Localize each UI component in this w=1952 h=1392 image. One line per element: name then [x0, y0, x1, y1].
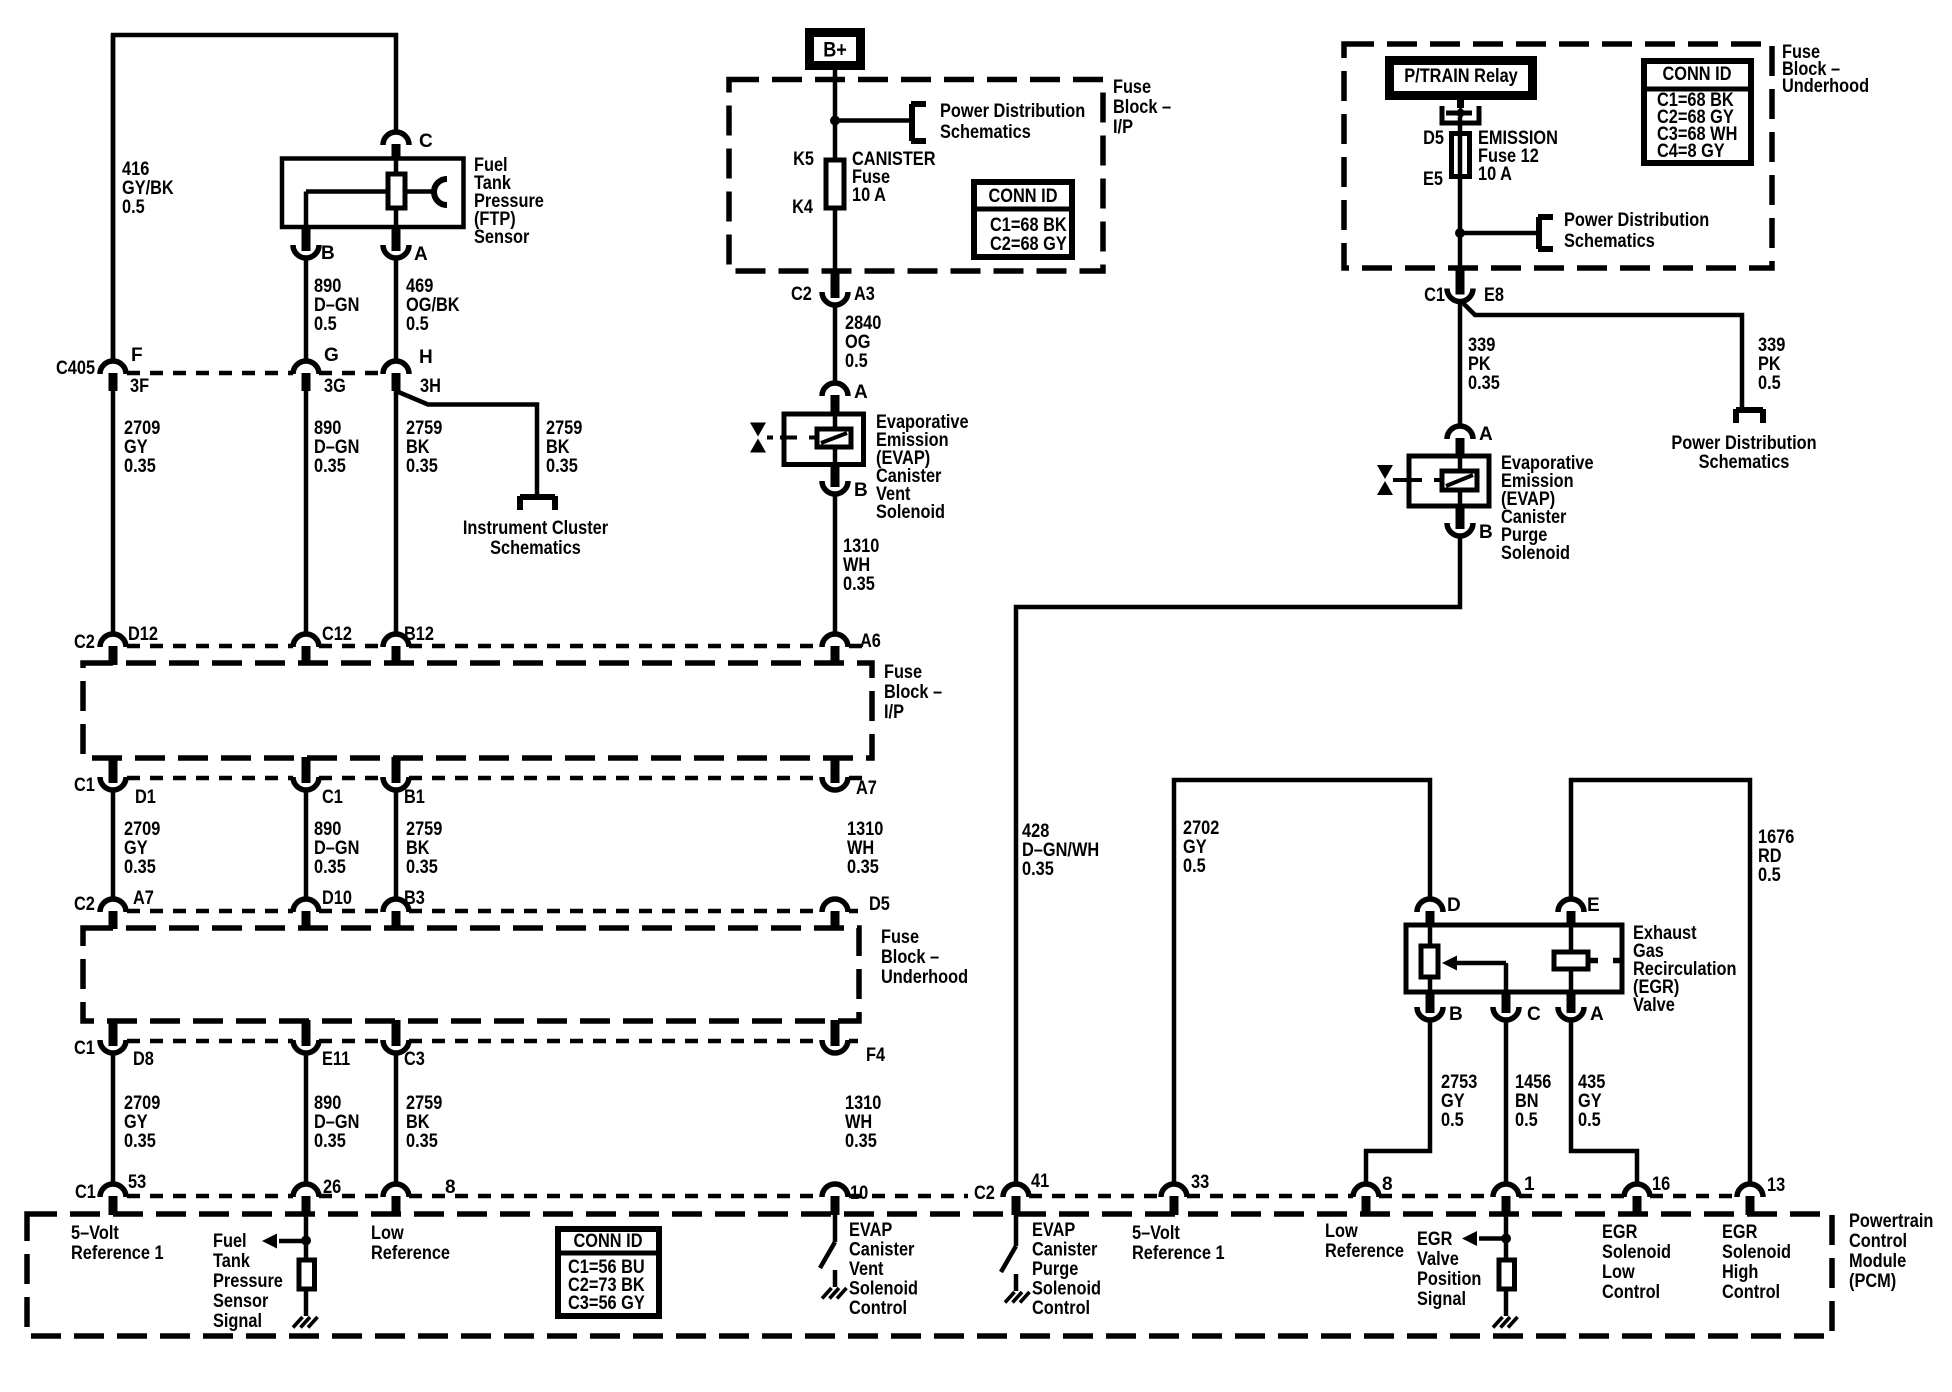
svg-text:A6: A6 — [860, 631, 881, 652]
svg-text:D–GN: D–GN — [314, 295, 359, 316]
svg-text:CONN ID: CONN ID — [574, 1231, 643, 1252]
svg-text:B1: B1 — [404, 787, 425, 808]
svg-text:E5: E5 — [1423, 169, 1443, 190]
svg-text:0.35: 0.35 — [546, 456, 578, 477]
svg-text:2709: 2709 — [124, 1093, 160, 1114]
svg-text:C1: C1 — [1424, 285, 1445, 306]
svg-text:0.35: 0.35 — [1022, 859, 1054, 880]
svg-text:B12: B12 — [404, 624, 434, 645]
svg-text:B: B — [321, 243, 335, 264]
svg-text:C3: C3 — [404, 1049, 425, 1070]
svg-text:10 A: 10 A — [1478, 164, 1512, 185]
svg-text:0.35: 0.35 — [406, 857, 438, 878]
svg-text:C2: C2 — [74, 632, 95, 653]
svg-text:EVAP: EVAP — [849, 1220, 893, 1241]
svg-text:Control: Control — [1849, 1231, 1907, 1252]
svg-text:890: 890 — [314, 819, 341, 840]
svg-text:Tank: Tank — [213, 1251, 250, 1272]
svg-text:3G: 3G — [324, 376, 346, 397]
svg-text:33: 33 — [1191, 1172, 1209, 1193]
svg-text:0.5: 0.5 — [122, 197, 145, 218]
svg-text:0.5: 0.5 — [1758, 373, 1781, 394]
svg-text:Schematics: Schematics — [1699, 452, 1790, 473]
svg-text:Schematics: Schematics — [1564, 231, 1655, 252]
svg-text:C1=68 BK: C1=68 BK — [990, 215, 1067, 236]
svg-text:Low: Low — [371, 1223, 404, 1244]
svg-text:3F: 3F — [130, 376, 149, 397]
svg-text:K5: K5 — [793, 149, 814, 170]
svg-text:2759: 2759 — [406, 1093, 442, 1114]
svg-text:WH: WH — [845, 1112, 872, 1133]
svg-text:H: H — [419, 347, 433, 368]
svg-text:Underhood: Underhood — [1782, 76, 1869, 97]
svg-text:Signal: Signal — [213, 1311, 262, 1332]
svg-text:Module: Module — [1849, 1251, 1906, 1272]
svg-text:8: 8 — [1382, 1174, 1393, 1195]
svg-text:Block –: Block – — [881, 947, 939, 968]
svg-text:16: 16 — [1652, 1174, 1670, 1195]
svg-text:K4: K4 — [792, 197, 813, 218]
svg-text:0.35: 0.35 — [847, 857, 879, 878]
svg-text:890: 890 — [314, 418, 341, 439]
svg-text:469: 469 — [406, 276, 433, 297]
svg-text:Signal: Signal — [1417, 1289, 1466, 1310]
svg-text:0.35: 0.35 — [314, 456, 346, 477]
svg-text:C12: C12 — [322, 624, 352, 645]
svg-text:0.5: 0.5 — [1578, 1110, 1601, 1131]
svg-text:Position: Position — [1417, 1269, 1481, 1290]
svg-text:26: 26 — [323, 1177, 341, 1198]
svg-text:D–GN: D–GN — [314, 1112, 359, 1133]
svg-text:BK: BK — [406, 1112, 430, 1133]
svg-text:C: C — [1527, 1004, 1541, 1025]
svg-text:2709: 2709 — [124, 418, 160, 439]
svg-text:D1: D1 — [135, 787, 156, 808]
svg-text:0.35: 0.35 — [314, 857, 346, 878]
svg-text:B: B — [854, 480, 868, 501]
svg-text:Solenoid: Solenoid — [876, 502, 945, 523]
svg-text:5–Volt: 5–Volt — [1132, 1223, 1180, 1244]
svg-text:Control: Control — [1602, 1282, 1660, 1303]
svg-text:1310: 1310 — [843, 536, 879, 557]
svg-text:C1: C1 — [75, 1182, 96, 1203]
svg-text:890: 890 — [314, 1093, 341, 1114]
svg-text:Block –: Block – — [1113, 97, 1171, 118]
svg-text:10 A: 10 A — [852, 185, 886, 206]
svg-text:1: 1 — [1524, 1174, 1535, 1195]
svg-text:High: High — [1722, 1262, 1758, 1283]
svg-text:Control: Control — [1722, 1282, 1780, 1303]
svg-text:Valve: Valve — [1417, 1249, 1459, 1270]
svg-text:D–GN: D–GN — [314, 437, 359, 458]
svg-text:C2: C2 — [974, 1183, 995, 1204]
svg-text:1310: 1310 — [845, 1093, 881, 1114]
svg-text:OG: OG — [845, 332, 870, 353]
svg-text:Underhood: Underhood — [881, 967, 968, 988]
svg-text:Low: Low — [1602, 1262, 1635, 1283]
svg-text:Powertrain: Powertrain — [1849, 1211, 1933, 1232]
svg-text:GY: GY — [1183, 837, 1207, 858]
svg-text:416: 416 — [122, 159, 149, 180]
svg-text:WH: WH — [843, 555, 870, 576]
svg-text:339: 339 — [1468, 335, 1495, 356]
svg-text:0.5: 0.5 — [406, 314, 429, 335]
svg-text:C2: C2 — [791, 284, 812, 305]
svg-text:0.35: 0.35 — [124, 1131, 156, 1152]
svg-text:GY: GY — [1578, 1091, 1602, 1112]
svg-text:Instrument Cluster: Instrument Cluster — [463, 518, 609, 539]
svg-text:D12: D12 — [128, 624, 158, 645]
svg-text:A: A — [854, 382, 868, 403]
svg-text:RD: RD — [1758, 846, 1782, 867]
svg-text:2840: 2840 — [845, 313, 881, 334]
svg-text:A7: A7 — [856, 778, 877, 799]
svg-text:I/P: I/P — [1113, 117, 1133, 138]
svg-text:Fuel: Fuel — [213, 1231, 247, 1252]
svg-text:Solenoid: Solenoid — [1602, 1242, 1671, 1263]
svg-text:WH: WH — [847, 838, 874, 859]
svg-text:C1: C1 — [74, 1038, 95, 1059]
svg-text:B3: B3 — [404, 888, 425, 909]
svg-text:Control: Control — [849, 1298, 907, 1319]
svg-text:D: D — [1447, 895, 1461, 916]
svg-text:339: 339 — [1758, 335, 1785, 356]
svg-text:B: B — [1479, 522, 1493, 543]
svg-text:1310: 1310 — [847, 819, 883, 840]
svg-text:CONN ID: CONN ID — [989, 186, 1058, 207]
svg-text:D5: D5 — [1423, 128, 1444, 149]
svg-text:BK: BK — [406, 437, 430, 458]
svg-text:Fuse: Fuse — [1113, 77, 1151, 98]
svg-text:0.5: 0.5 — [1183, 856, 1206, 877]
svg-text:EGR: EGR — [1602, 1222, 1638, 1243]
svg-text:Sensor: Sensor — [474, 227, 530, 248]
svg-text:C3=56 GY: C3=56 GY — [568, 1293, 645, 1314]
svg-text:0.35: 0.35 — [314, 1131, 346, 1152]
svg-text:BK: BK — [546, 437, 570, 458]
svg-text:PK: PK — [1468, 354, 1491, 375]
svg-text:10: 10 — [850, 1183, 868, 1204]
svg-text:428: 428 — [1022, 821, 1049, 842]
svg-text:G: G — [324, 345, 339, 366]
svg-text:2759: 2759 — [546, 418, 582, 439]
svg-text:GY/BK: GY/BK — [122, 178, 174, 199]
svg-text:P/TRAIN Relay: P/TRAIN Relay — [1404, 66, 1518, 87]
svg-text:A7: A7 — [133, 888, 154, 909]
svg-text:Reference: Reference — [1325, 1241, 1404, 1262]
svg-text:OG/BK: OG/BK — [406, 295, 460, 316]
svg-text:E8: E8 — [1484, 285, 1504, 306]
svg-text:B+: B+ — [823, 38, 847, 61]
svg-text:Fuse: Fuse — [881, 927, 919, 948]
svg-text:A: A — [1479, 424, 1493, 445]
svg-text:Vent: Vent — [849, 1259, 884, 1280]
svg-text:435: 435 — [1578, 1072, 1606, 1093]
svg-text:0.35: 0.35 — [124, 456, 156, 477]
svg-text:8: 8 — [445, 1177, 456, 1198]
svg-text:0.35: 0.35 — [843, 574, 875, 595]
svg-text:53: 53 — [128, 1172, 146, 1193]
svg-text:EVAP: EVAP — [1032, 1220, 1076, 1241]
svg-text:D8: D8 — [133, 1049, 154, 1070]
svg-text:5–Volt: 5–Volt — [71, 1223, 119, 1244]
svg-text:Control: Control — [1032, 1298, 1090, 1319]
svg-text:CONN ID: CONN ID — [1663, 64, 1732, 85]
svg-text:F: F — [131, 345, 143, 366]
svg-text:Fuse: Fuse — [884, 662, 922, 683]
svg-text:D–GN/WH: D–GN/WH — [1022, 840, 1099, 861]
svg-text:Block –: Block – — [884, 682, 942, 703]
svg-text:Low: Low — [1325, 1221, 1358, 1242]
svg-text:Power Distribution: Power Distribution — [1671, 433, 1816, 454]
svg-text:Schematics: Schematics — [940, 122, 1031, 143]
svg-text:C: C — [419, 131, 433, 152]
svg-text:GY: GY — [124, 1112, 148, 1133]
svg-text:C2=68 GY: C2=68 GY — [990, 234, 1067, 255]
svg-text:0.35: 0.35 — [845, 1131, 877, 1152]
svg-text:Solenoid: Solenoid — [1032, 1279, 1101, 1300]
svg-text:C1: C1 — [74, 775, 95, 796]
svg-text:Sensor: Sensor — [213, 1291, 269, 1312]
svg-text:Solenoid: Solenoid — [1722, 1242, 1791, 1263]
svg-text:13: 13 — [1767, 1175, 1785, 1196]
svg-text:0.5: 0.5 — [845, 351, 868, 372]
svg-text:0.35: 0.35 — [124, 857, 156, 878]
svg-text:1456: 1456 — [1515, 1072, 1551, 1093]
svg-text:Reference 1: Reference 1 — [1132, 1243, 1225, 1264]
svg-text:0.5: 0.5 — [1441, 1110, 1464, 1131]
svg-text:Solenoid: Solenoid — [849, 1279, 918, 1300]
svg-text:2759: 2759 — [406, 819, 442, 840]
svg-text:Schematics: Schematics — [490, 538, 581, 559]
svg-text:2753: 2753 — [1441, 1072, 1477, 1093]
svg-text:0.5: 0.5 — [1758, 865, 1781, 886]
svg-text:F4: F4 — [866, 1045, 885, 1066]
svg-text:Canister: Canister — [849, 1240, 915, 1261]
svg-text:890: 890 — [314, 276, 341, 297]
svg-text:A3: A3 — [854, 284, 875, 305]
svg-text:0.35: 0.35 — [1468, 373, 1500, 394]
svg-text:Purge: Purge — [1032, 1259, 1078, 1280]
svg-text:Valve: Valve — [1633, 995, 1675, 1016]
svg-text:C405: C405 — [56, 358, 95, 379]
svg-text:GY: GY — [124, 437, 148, 458]
svg-text:Reference: Reference — [371, 1243, 450, 1264]
svg-text:Power Distribution: Power Distribution — [940, 101, 1085, 122]
svg-text:Pressure: Pressure — [213, 1271, 283, 1292]
svg-text:0.5: 0.5 — [1515, 1110, 1538, 1131]
svg-text:Reference 1: Reference 1 — [71, 1243, 164, 1264]
svg-text:BN: BN — [1515, 1091, 1539, 1112]
svg-text:A: A — [1590, 1004, 1604, 1025]
svg-text:0.35: 0.35 — [406, 1131, 438, 1152]
svg-text:D5: D5 — [869, 894, 890, 915]
svg-text:EGR: EGR — [1417, 1229, 1453, 1250]
svg-text:D–GN: D–GN — [314, 838, 359, 859]
svg-text:C4=8 GY: C4=8 GY — [1657, 141, 1725, 162]
svg-text:D10: D10 — [322, 888, 352, 909]
svg-text:E: E — [1587, 895, 1600, 916]
svg-text:Power Distribution: Power Distribution — [1564, 210, 1709, 231]
svg-text:E11: E11 — [322, 1049, 351, 1070]
svg-text:GY: GY — [124, 838, 148, 859]
svg-text:EGR: EGR — [1722, 1222, 1758, 1243]
svg-text:0.35: 0.35 — [406, 456, 438, 477]
svg-text:0.5: 0.5 — [314, 314, 337, 335]
svg-text:2709: 2709 — [124, 819, 160, 840]
svg-text:I/P: I/P — [884, 702, 904, 723]
svg-text:GY: GY — [1441, 1091, 1465, 1112]
svg-text:2702: 2702 — [1183, 818, 1219, 839]
svg-text:B: B — [1449, 1004, 1463, 1025]
svg-text:A: A — [414, 244, 428, 265]
svg-text:1676: 1676 — [1758, 827, 1794, 848]
svg-text:Solenoid: Solenoid — [1501, 543, 1570, 564]
svg-text:41: 41 — [1031, 1171, 1050, 1192]
svg-text:(PCM): (PCM) — [1849, 1271, 1896, 1292]
svg-text:BK: BK — [406, 838, 430, 859]
svg-text:PK: PK — [1758, 354, 1781, 375]
svg-text:3H: 3H — [420, 376, 441, 397]
svg-text:Canister: Canister — [1032, 1240, 1098, 1261]
svg-text:C2: C2 — [74, 894, 95, 915]
svg-text:2759: 2759 — [406, 418, 442, 439]
svg-text:C1: C1 — [322, 787, 343, 808]
